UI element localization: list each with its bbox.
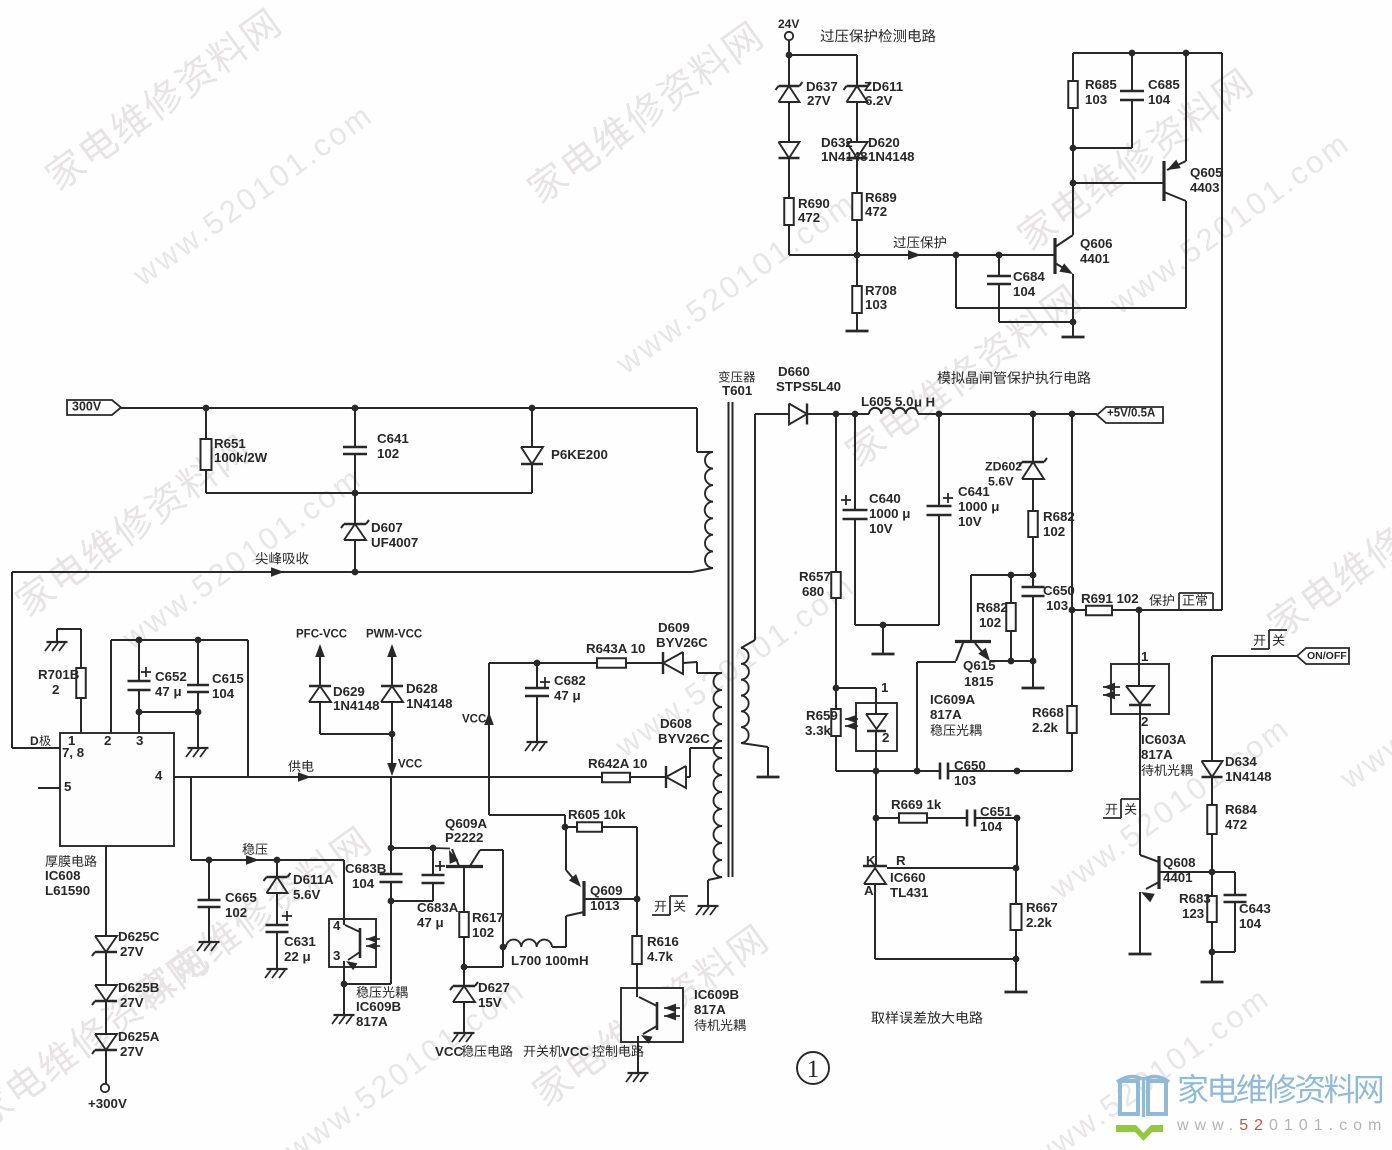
resistor R708 bbox=[852, 255, 897, 330]
svg-text:3.3k: 3.3k bbox=[805, 723, 831, 738]
ground under opto3 bbox=[626, 1073, 649, 1082]
resistor R643A bbox=[586, 641, 663, 668]
svg-text:C615: C615 bbox=[212, 671, 244, 686]
svg-text:C651: C651 bbox=[980, 804, 1012, 819]
diode D634 bbox=[1202, 754, 1272, 805]
label T601 bbox=[719, 371, 756, 398]
svg-text:102: 102 bbox=[979, 615, 1001, 630]
svg-text:R685: R685 bbox=[1085, 77, 1117, 92]
wire opto1 drop bbox=[1138, 610, 1140, 664]
svg-text:+300V: +300V bbox=[88, 1096, 127, 1111]
wire 5V rail bbox=[918, 411, 1097, 418]
ground under C682 bbox=[525, 742, 548, 751]
svg-text:1000 μ: 1000 μ bbox=[869, 506, 910, 521]
diode D629 bbox=[309, 684, 380, 734]
svg-text:P6KE200: P6KE200 bbox=[551, 447, 608, 462]
wire opto2 to C683 rail bbox=[344, 901, 391, 984]
svg-text:D629: D629 bbox=[333, 684, 365, 699]
ground right of Q609 bbox=[0, 0, 1, 1]
transistor Q609A bbox=[433, 816, 506, 950]
svg-text:4403: 4403 bbox=[1190, 180, 1220, 195]
resistor R683 bbox=[1179, 872, 1217, 955]
svg-text:ZD602: ZD602 bbox=[985, 459, 1022, 473]
svg-text:4: 4 bbox=[333, 918, 341, 933]
capacitor C650 series bbox=[940, 758, 986, 788]
node +300V terminal bbox=[88, 1084, 127, 1111]
svg-text:103: 103 bbox=[1085, 92, 1107, 107]
svg-text:47 μ: 47 μ bbox=[155, 684, 182, 699]
svg-text:817A: 817A bbox=[694, 1002, 726, 1017]
svg-text:102: 102 bbox=[377, 446, 399, 461]
wire error amp bottom bbox=[875, 930, 1019, 991]
svg-text:C643: C643 bbox=[1239, 901, 1271, 916]
svg-text:104: 104 bbox=[1148, 92, 1171, 107]
ground under C631 bbox=[265, 969, 288, 978]
wire sample row bbox=[836, 768, 1072, 775]
wire diode join bbox=[320, 731, 397, 776]
label PFC-VCC bbox=[296, 629, 347, 686]
svg-text:15V: 15V bbox=[478, 995, 502, 1010]
svg-text:103: 103 bbox=[1046, 598, 1068, 613]
wire top rail bbox=[789, 55, 857, 86]
svg-text:R659: R659 bbox=[806, 708, 838, 723]
ground under D627 bbox=[452, 1033, 475, 1042]
capacitor C684 bbox=[987, 255, 1073, 322]
svg-text:P2222: P2222 bbox=[445, 830, 483, 845]
wire pin4 VCC rail bbox=[174, 772, 602, 782]
svg-text:UF4007: UF4007 bbox=[371, 535, 418, 550]
label D pole bbox=[12, 734, 60, 748]
svg-text:L61590: L61590 bbox=[45, 883, 90, 898]
inductor L605 bbox=[833, 394, 935, 417]
label IC609A bbox=[930, 692, 981, 736]
title overvoltage protect detect circuit bbox=[821, 29, 936, 42]
svg-text:ON/OFF: ON/OFF bbox=[1307, 650, 1347, 662]
ground under Q606 bbox=[1062, 336, 1085, 339]
transistor Q605 bbox=[1073, 53, 1223, 308]
svg-text:D660: D660 bbox=[778, 364, 810, 379]
svg-text:22 μ: 22 μ bbox=[284, 949, 311, 964]
svg-text:R651: R651 bbox=[214, 436, 246, 451]
ground secondary upper bbox=[757, 776, 780, 779]
capacitor C650 parallel bbox=[1022, 575, 1075, 687]
svg-text:2: 2 bbox=[104, 733, 111, 748]
svg-text:C665: C665 bbox=[225, 890, 257, 905]
svg-text:817A: 817A bbox=[1141, 747, 1173, 762]
svg-text:103: 103 bbox=[865, 297, 887, 312]
svg-text:R668: R668 bbox=[1032, 705, 1064, 720]
resistor R689 bbox=[852, 190, 897, 255]
capacitor C665 bbox=[198, 860, 258, 941]
diode D625C bbox=[92, 846, 160, 985]
wire R605 feed bbox=[489, 815, 568, 830]
resistor R691 bbox=[1072, 591, 1142, 615]
resistor R617 bbox=[459, 868, 504, 970]
transistor Q609 bbox=[566, 827, 637, 916]
node 300V tag bbox=[67, 399, 121, 415]
wire K drop bbox=[875, 771, 877, 866]
title moni zhaguan circuit bbox=[937, 371, 1090, 384]
svg-text:5.6V: 5.6V bbox=[988, 474, 1014, 488]
svg-text:IC609B: IC609B bbox=[356, 999, 401, 1014]
svg-text:Q606: Q606 bbox=[1080, 236, 1113, 251]
svg-text:27V: 27V bbox=[807, 93, 831, 108]
svg-text:VCC: VCC bbox=[561, 1044, 589, 1059]
svg-text:1N4148: 1N4148 bbox=[406, 696, 453, 711]
svg-text:IC660: IC660 bbox=[890, 870, 925, 885]
node ON/OFF tag bbox=[1297, 648, 1349, 664]
svg-text:IC609B: IC609B bbox=[694, 987, 739, 1002]
svg-text:5: 5 bbox=[64, 779, 72, 794]
ground under C650 bbox=[1022, 687, 1045, 690]
svg-text:R617: R617 bbox=[472, 910, 504, 925]
svg-text:300V: 300V bbox=[72, 399, 102, 413]
wire VCC branch bbox=[462, 663, 494, 815]
svg-text:R689: R689 bbox=[865, 190, 897, 205]
wire R643A row bbox=[489, 660, 597, 667]
resistor R668 bbox=[1032, 705, 1077, 771]
svg-text:1N4148: 1N4148 bbox=[333, 698, 380, 713]
title sampling error amplifier bbox=[872, 1011, 983, 1024]
resistor R659 bbox=[805, 688, 841, 771]
svg-text:1N4148: 1N4148 bbox=[868, 149, 915, 164]
svg-text:C684: C684 bbox=[1013, 269, 1045, 284]
svg-text:472: 472 bbox=[798, 210, 820, 225]
svg-text:1815: 1815 bbox=[964, 674, 994, 689]
label circled 1 bbox=[797, 1052, 829, 1084]
wire wenya row bbox=[191, 855, 344, 865]
wire pin5 stub bbox=[38, 787, 60, 789]
diode D620 bbox=[847, 135, 915, 193]
label guoya baohu bbox=[893, 236, 945, 248]
ground under opto2 bbox=[332, 1015, 355, 1024]
svg-text:R682: R682 bbox=[1043, 509, 1075, 524]
svg-text:D625C: D625C bbox=[118, 929, 160, 944]
svg-text:472: 472 bbox=[1225, 817, 1247, 832]
label jianfeng xishou bbox=[256, 552, 309, 564]
optocoupler IC609A bbox=[845, 680, 897, 751]
capacitor C631 bbox=[266, 911, 317, 968]
svg-text:D608: D608 bbox=[660, 716, 692, 731]
svg-text:A: A bbox=[864, 883, 874, 898]
svg-text:R: R bbox=[896, 853, 906, 868]
svg-text:R616: R616 bbox=[647, 934, 679, 949]
svg-text:C631: C631 bbox=[284, 934, 316, 949]
label IC609B right bbox=[694, 987, 745, 1031]
label IC608 bbox=[45, 855, 97, 898]
svg-text:R669 1k: R669 1k bbox=[891, 797, 942, 812]
svg-text:1000 μ: 1000 μ bbox=[958, 499, 999, 514]
svg-text:D627: D627 bbox=[478, 980, 510, 995]
svg-text:1N4148: 1N4148 bbox=[1225, 769, 1272, 784]
wire cap bottoms bbox=[855, 622, 939, 653]
optocoupler IC609B left bbox=[329, 860, 380, 987]
capacitor C683B bbox=[345, 848, 403, 904]
svg-text:104: 104 bbox=[352, 876, 375, 891]
transformer T601 core bbox=[729, 402, 733, 877]
svg-text:D: D bbox=[30, 734, 39, 748]
svg-text:R708: R708 bbox=[865, 283, 897, 298]
svg-text:4: 4 bbox=[155, 768, 163, 783]
svg-text:Q609A: Q609A bbox=[445, 816, 488, 831]
wire protect row bbox=[1139, 609, 1222, 611]
ground under R708 bbox=[846, 330, 869, 333]
svg-text:3: 3 bbox=[333, 948, 340, 963]
svg-text:PWM-VCC: PWM-VCC bbox=[366, 629, 422, 641]
wire to C684 bbox=[956, 255, 1186, 308]
svg-text:817A: 817A bbox=[930, 707, 962, 722]
svg-text:104: 104 bbox=[212, 686, 235, 701]
svg-text:R605 10k: R605 10k bbox=[568, 807, 626, 822]
wire left drop to D pin bbox=[11, 572, 13, 748]
svg-text:5.6V: 5.6V bbox=[293, 887, 320, 902]
svg-text:R667: R667 bbox=[1026, 900, 1058, 915]
svg-text:R642A 10: R642A 10 bbox=[588, 756, 647, 771]
svg-text:2: 2 bbox=[52, 682, 59, 697]
svg-text:4.7k: 4.7k bbox=[647, 949, 673, 964]
capacitor C652 bbox=[128, 640, 187, 715]
capacitor C682 bbox=[525, 663, 586, 741]
wire pin4 to wenya bbox=[190, 777, 192, 860]
svg-text:10V: 10V bbox=[869, 521, 893, 536]
label wenya bbox=[242, 843, 267, 855]
svg-text:Q615: Q615 bbox=[963, 658, 996, 673]
ground error amp bbox=[1005, 991, 1028, 994]
wire R657 node bbox=[833, 685, 876, 703]
svg-text:27V: 27V bbox=[120, 1044, 144, 1059]
diode D660 bbox=[755, 364, 841, 425]
label switch VCC control bbox=[524, 1044, 644, 1059]
diode D632 bbox=[779, 135, 868, 198]
svg-text:2.2k: 2.2k bbox=[1032, 720, 1058, 735]
svg-text:R682: R682 bbox=[976, 600, 1008, 615]
inductor L700 bbox=[506, 939, 589, 968]
svg-text:1: 1 bbox=[1141, 649, 1149, 664]
svg-text:3: 3 bbox=[136, 733, 143, 748]
label baohu / normal box bbox=[1149, 593, 1213, 610]
resistor R682 lower bbox=[976, 575, 1016, 664]
svg-text:IC609A: IC609A bbox=[930, 692, 975, 707]
svg-text:10V: 10V bbox=[958, 514, 982, 529]
zener D611A bbox=[264, 860, 335, 919]
svg-text:7, 8: 7, 8 bbox=[62, 745, 84, 760]
svg-text:Q608: Q608 bbox=[1163, 855, 1196, 870]
transformer secondary winding lower bbox=[690, 662, 722, 905]
capacitor C685 bbox=[1073, 53, 1180, 148]
svg-text:4401: 4401 bbox=[1080, 251, 1110, 266]
resistor R682 upper bbox=[1028, 509, 1075, 578]
svg-text:VCC: VCC bbox=[462, 714, 486, 726]
svg-text:R691 102: R691 102 bbox=[1081, 591, 1139, 606]
diode P6KE200 bbox=[521, 408, 608, 493]
ground under C615 bbox=[186, 748, 209, 757]
diode D625A bbox=[92, 1029, 160, 1084]
wire cap bottom rail bbox=[139, 712, 198, 747]
svg-text:C640: C640 bbox=[869, 491, 901, 506]
ground under C665 bbox=[197, 942, 220, 951]
wire collector row bbox=[971, 572, 1033, 579]
diode D608 bbox=[658, 716, 710, 788]
wire top right rail bbox=[1073, 50, 1222, 57]
svg-text:817A: 817A bbox=[356, 1014, 388, 1029]
svg-text:102: 102 bbox=[225, 905, 247, 920]
label gongdian bbox=[288, 760, 313, 772]
transistor Q615 bbox=[917, 575, 1033, 689]
wire opto out bbox=[873, 751, 880, 774]
capacitor C640 bbox=[841, 414, 910, 625]
svg-text:K: K bbox=[866, 853, 876, 868]
label PWM-VCC bbox=[366, 629, 422, 686]
wire ON/OFF line bbox=[1212, 656, 1297, 761]
wire opto2 ground bbox=[343, 984, 345, 1014]
switch waveform label Q609 bbox=[652, 896, 688, 915]
label VCC down bbox=[398, 759, 422, 771]
ground under C640 C641 bbox=[872, 653, 895, 656]
capacitor C641 secondary bbox=[927, 414, 1000, 625]
svg-text:47 μ: 47 μ bbox=[554, 688, 581, 703]
zener D627 bbox=[450, 967, 510, 1032]
svg-text:C682: C682 bbox=[554, 673, 586, 688]
svg-text:D637: D637 bbox=[806, 79, 838, 94]
zener ZD602 bbox=[985, 414, 1047, 511]
resistor R651 bbox=[201, 408, 268, 493]
resistor R669 bbox=[873, 797, 967, 823]
svg-text:IC608: IC608 bbox=[45, 868, 80, 883]
resistor R605 bbox=[565, 807, 640, 902]
svg-text:102: 102 bbox=[1043, 524, 1065, 539]
node +5V tag bbox=[1097, 407, 1163, 423]
wire to ground Q608 net bbox=[1211, 952, 1213, 981]
wire R617 joint bbox=[464, 947, 503, 967]
resistor R684 bbox=[1207, 802, 1257, 875]
svg-text:Q609: Q609 bbox=[590, 883, 623, 898]
shunt reference IC660 TL431 bbox=[863, 853, 929, 959]
svg-text:C652: C652 bbox=[155, 669, 187, 684]
svg-text:27V: 27V bbox=[120, 944, 144, 959]
svg-text:+5V/0.5A: +5V/0.5A bbox=[1107, 408, 1155, 420]
optocoupler IC609B right bbox=[621, 988, 683, 1072]
ground under transformer lower bbox=[696, 906, 719, 915]
svg-text:L700 100mH: L700 100mH bbox=[511, 953, 589, 968]
wire pin2 rail bbox=[111, 637, 248, 777]
diode D625B bbox=[92, 980, 159, 1034]
svg-text:R643A 10: R643A 10 bbox=[586, 641, 645, 656]
zener ZD611 bbox=[844, 79, 904, 142]
svg-text:T601: T601 bbox=[722, 383, 753, 398]
svg-text:ZD611: ZD611 bbox=[864, 79, 904, 94]
svg-text:C683A: C683A bbox=[417, 900, 459, 915]
wire L700 right bbox=[552, 916, 566, 947]
svg-text:R657: R657 bbox=[799, 569, 831, 584]
svg-text:VCC: VCC bbox=[435, 1044, 463, 1059]
capacitor C683A bbox=[391, 845, 459, 930]
svg-text:D611A: D611A bbox=[293, 872, 334, 887]
switch waveform label left bbox=[1103, 799, 1139, 818]
label IC609B left bbox=[356, 986, 407, 1029]
svg-text:BYV26C: BYV26C bbox=[656, 635, 708, 650]
svg-text:D634: D634 bbox=[1225, 754, 1257, 769]
svg-text:104: 104 bbox=[1013, 284, 1036, 299]
svg-text:C641: C641 bbox=[377, 431, 409, 446]
svg-text:104: 104 bbox=[1239, 916, 1262, 931]
svg-text:VCC: VCC bbox=[398, 759, 422, 771]
ground under Q608 bbox=[1129, 953, 1152, 956]
transformer primary winding bbox=[692, 408, 713, 572]
wire Q615 base drop bbox=[914, 662, 921, 774]
svg-text:104: 104 bbox=[980, 819, 1003, 834]
capacitor C643 bbox=[1212, 872, 1271, 952]
wire snubber bottom bbox=[206, 490, 532, 497]
ground above R701B bbox=[45, 629, 81, 668]
svg-text:6.2V: 6.2V bbox=[865, 93, 892, 108]
svg-text:D620: D620 bbox=[868, 135, 900, 150]
svg-text:123: 123 bbox=[1182, 906, 1204, 921]
diode D628 bbox=[381, 681, 453, 734]
svg-text:102: 102 bbox=[472, 925, 494, 940]
svg-text:Q605: Q605 bbox=[1190, 165, 1223, 180]
wire OVP row bbox=[789, 250, 1055, 260]
wire TL431 R line bbox=[887, 865, 1019, 872]
svg-text:27V: 27V bbox=[120, 995, 144, 1010]
svg-text:C683B: C683B bbox=[345, 861, 386, 876]
svg-text:1: 1 bbox=[881, 680, 889, 695]
transistor Q608 bbox=[1140, 855, 1212, 953]
svg-text:D609: D609 bbox=[658, 620, 690, 635]
capacitor C651 bbox=[967, 804, 1020, 834]
svg-text:PFC-VCC: PFC-VCC bbox=[296, 629, 347, 641]
zener D637 bbox=[776, 79, 838, 142]
resistor R657 bbox=[799, 414, 841, 688]
diode D607 bbox=[341, 493, 418, 572]
svg-text:R684: R684 bbox=[1225, 802, 1257, 817]
svg-text:TL431: TL431 bbox=[890, 885, 929, 900]
svg-text:472: 472 bbox=[865, 204, 887, 219]
wire spike-absorb line bbox=[12, 567, 692, 577]
svg-text:D628: D628 bbox=[406, 681, 438, 696]
svg-text:L605 5.0: L605 5.0 bbox=[861, 394, 914, 409]
logo site name bbox=[1179, 1074, 1382, 1104]
capacitor C615 bbox=[187, 640, 244, 715]
label VCC regulator circuit bbox=[435, 1044, 513, 1059]
svg-text:C650: C650 bbox=[954, 758, 986, 773]
transformer secondary winding upper bbox=[741, 414, 768, 776]
node 24V supply terminal bbox=[778, 17, 799, 58]
svg-text:2: 2 bbox=[882, 730, 889, 745]
logo book icon bbox=[1116, 1077, 1169, 1141]
svg-text:R701B: R701B bbox=[38, 667, 79, 682]
logo url bbox=[1176, 1117, 1387, 1134]
svg-text:C650: C650 bbox=[1043, 583, 1075, 598]
svg-text:BYV26C: BYV26C bbox=[658, 731, 710, 746]
svg-text:4401: 4401 bbox=[1163, 870, 1193, 885]
resistor R690 bbox=[784, 196, 830, 255]
svg-text:1: 1 bbox=[807, 1056, 820, 1083]
svg-text:C641: C641 bbox=[958, 484, 990, 499]
svg-text:100k/2W: 100k/2W bbox=[214, 450, 268, 465]
optocoupler IC603A bbox=[1103, 649, 1169, 729]
wire 300V rail bbox=[121, 405, 697, 412]
IC608 hybrid block bbox=[60, 733, 174, 846]
svg-text:680: 680 bbox=[802, 584, 824, 599]
svg-text:24V: 24V bbox=[778, 17, 799, 31]
resistor R701B bbox=[38, 667, 86, 733]
svg-text:D625A: D625A bbox=[118, 1029, 160, 1044]
ground bottom right bbox=[1201, 981, 1224, 984]
svg-text:2: 2 bbox=[1141, 714, 1148, 729]
svg-text:IC603A: IC603A bbox=[1141, 732, 1186, 747]
resistor R616 bbox=[632, 899, 679, 988]
svg-text:R690: R690 bbox=[798, 196, 830, 211]
